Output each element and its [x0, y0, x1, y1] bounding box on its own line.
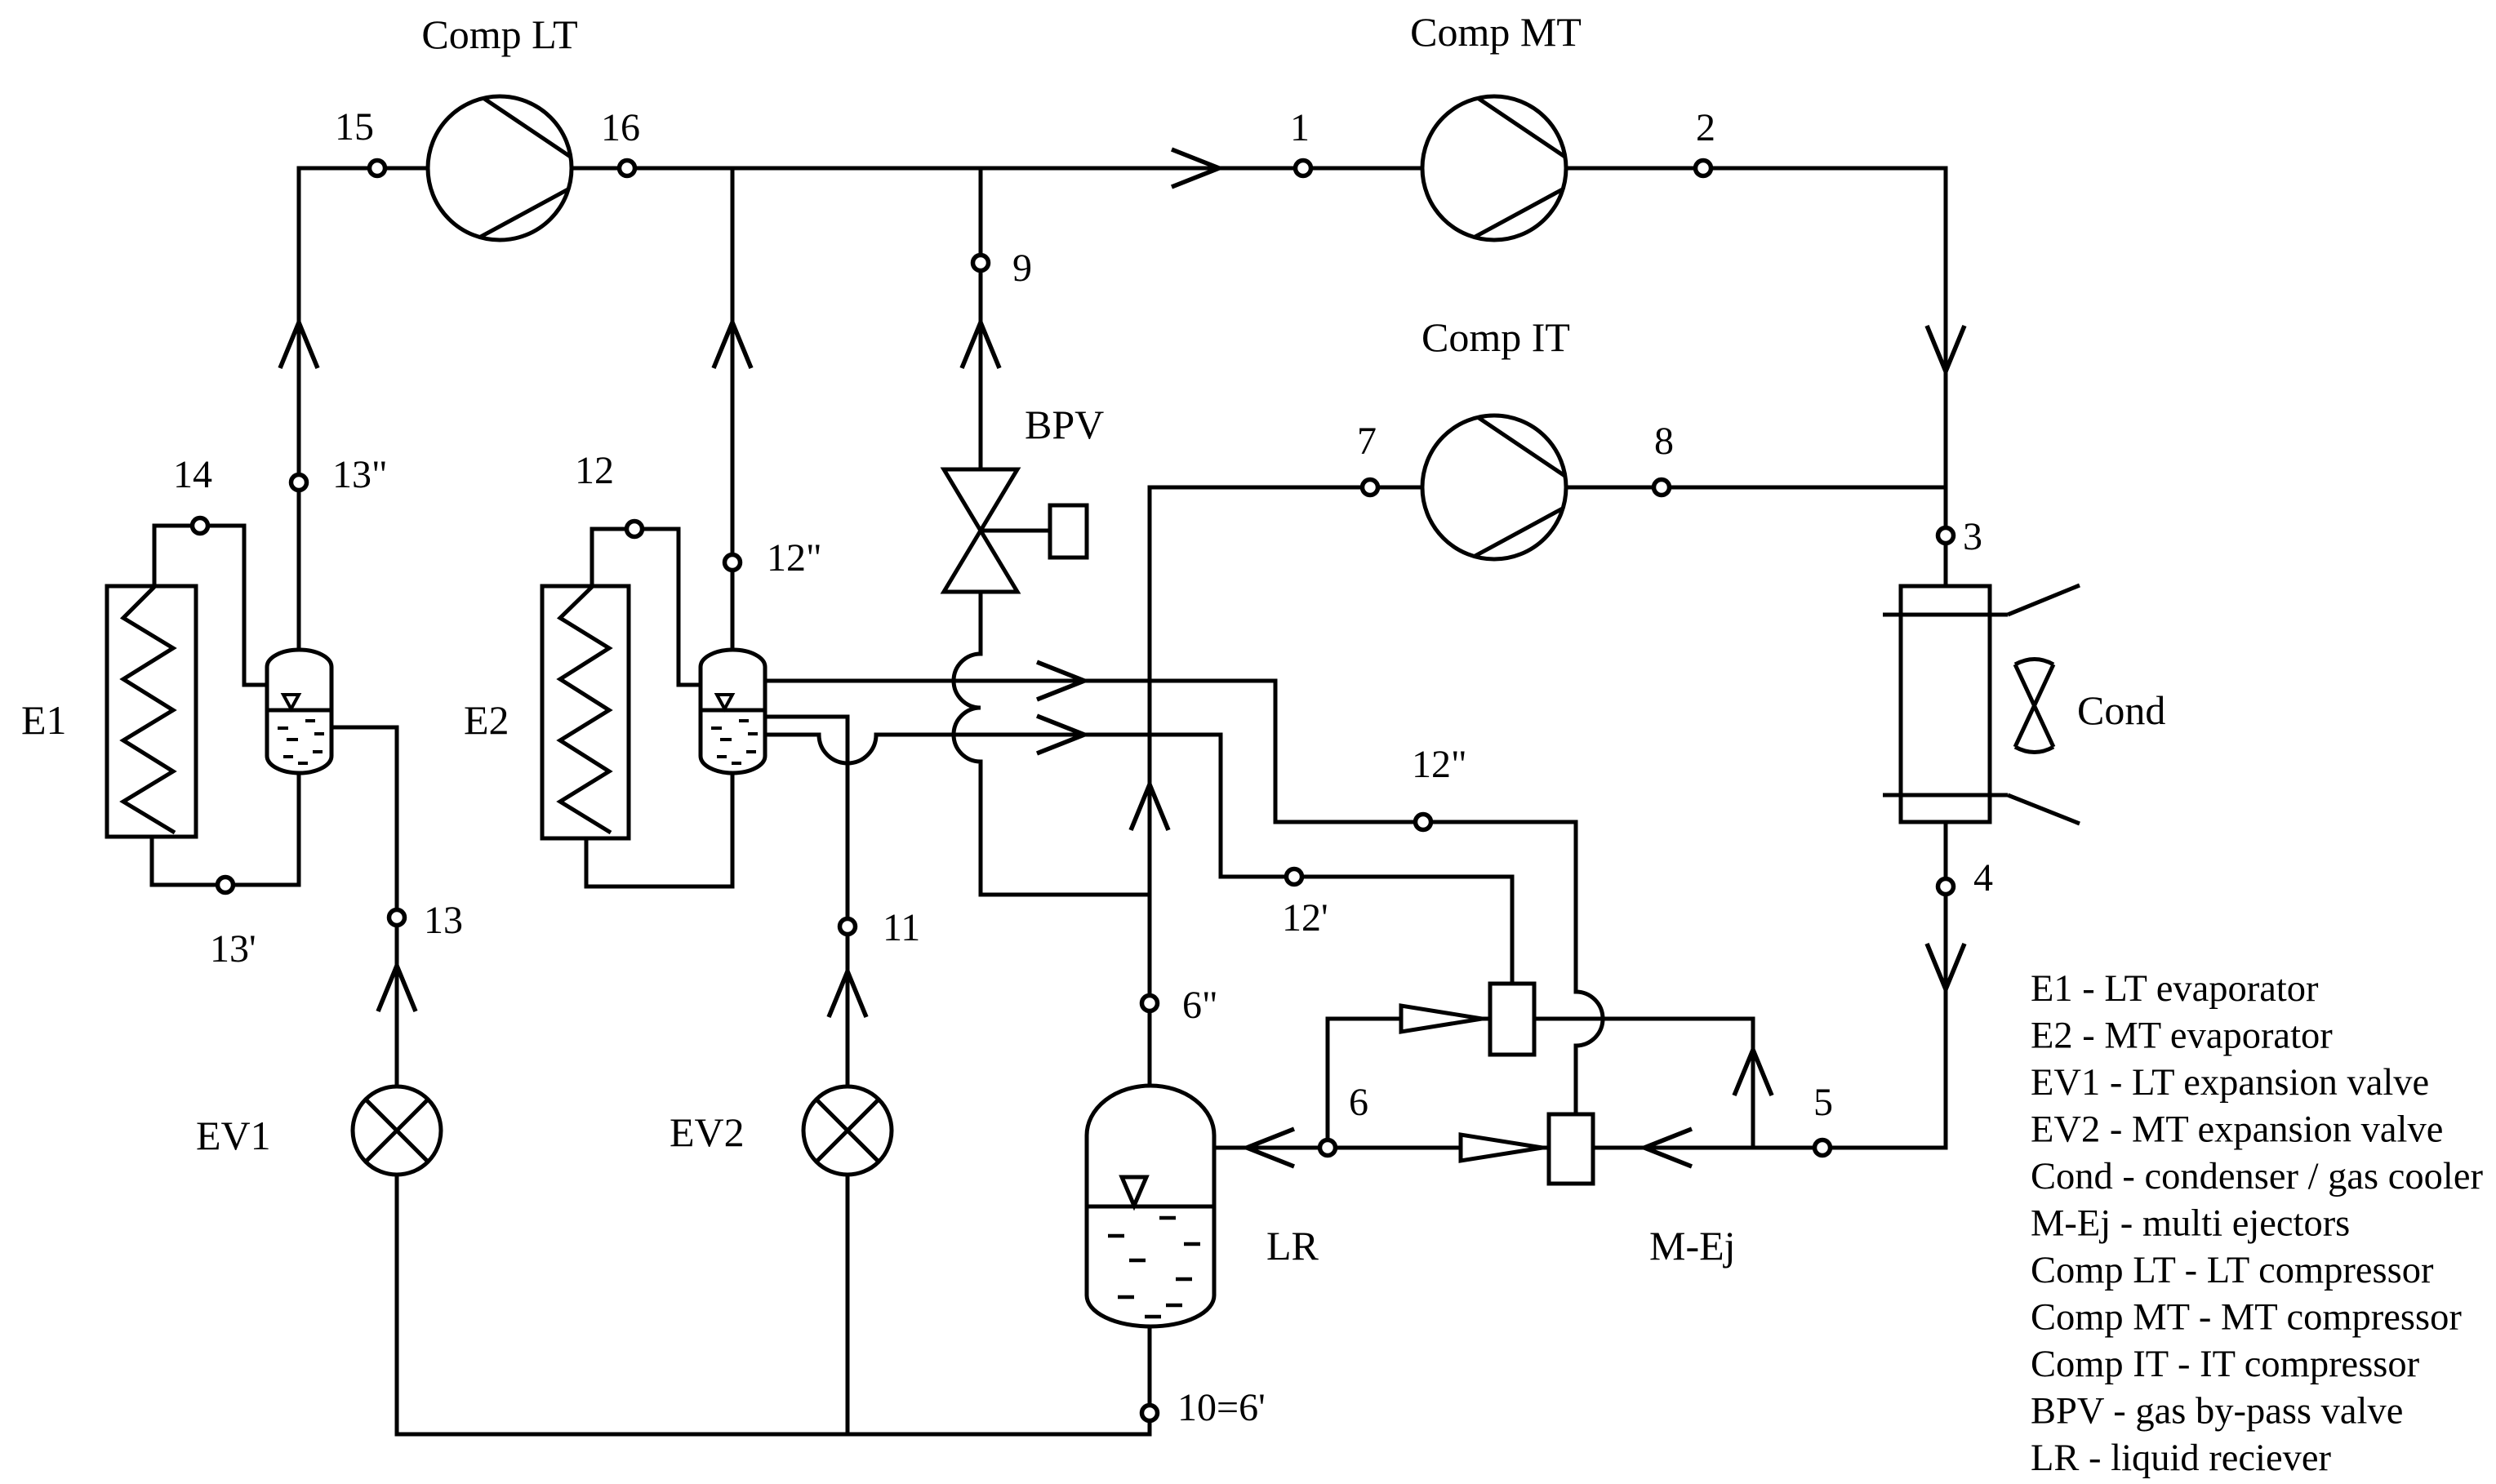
svg-text:2: 2 [1696, 106, 1715, 149]
svg-text:BPV: BPV [1025, 402, 1104, 447]
svg-text:10=6': 10=6' [1177, 1386, 1266, 1429]
svg-text:3: 3 [1963, 515, 1982, 558]
svg-text:7: 7 [1357, 420, 1377, 463]
svg-text:Comp IT: Comp IT [1422, 314, 1570, 360]
svg-text:11: 11 [883, 906, 920, 949]
svg-text:EV2: EV2 [670, 1109, 745, 1155]
svg-text:E2 - MT evaporator: E2 - MT evaporator [2031, 1015, 2333, 1057]
svg-text:1: 1 [1290, 106, 1310, 149]
svg-text:6: 6 [1349, 1081, 1368, 1124]
svg-text:Comp LT: Comp LT [421, 11, 577, 57]
svg-text:E1: E1 [21, 697, 67, 743]
svg-text:14: 14 [173, 453, 212, 496]
svg-text:6": 6" [1182, 984, 1218, 1027]
svg-text:LR - liquid reciever: LR - liquid reciever [2031, 1437, 2331, 1479]
svg-text:16: 16 [601, 106, 640, 149]
svg-text:E2: E2 [464, 697, 509, 743]
svg-text:8: 8 [1654, 420, 1674, 463]
svg-text:4: 4 [1973, 856, 1993, 900]
svg-text:Cond: Cond [2077, 687, 2165, 733]
svg-text:Cond - condenser / gas cooler: Cond - condenser / gas cooler [2031, 1156, 2483, 1197]
svg-text:LR: LR [1266, 1223, 1319, 1269]
svg-text:12": 12" [767, 536, 822, 580]
svg-text:12": 12" [1412, 743, 1467, 786]
svg-text:E1 - LT evaporator: E1 - LT evaporator [2031, 968, 2319, 1010]
svg-text:BPV - gas by-pass valve: BPV - gas by-pass valve [2031, 1391, 2403, 1433]
svg-text:13": 13" [332, 453, 388, 496]
svg-text:EV1: EV1 [196, 1113, 271, 1158]
svg-text:Comp MT: Comp MT [1410, 9, 1582, 55]
svg-text:EV1 - LT expansion valve: EV1 - LT expansion valve [2031, 1062, 2429, 1104]
svg-text:15: 15 [335, 105, 374, 149]
svg-text:12: 12 [575, 449, 614, 492]
svg-text:13': 13' [210, 927, 256, 971]
svg-text:12': 12' [1282, 896, 1328, 940]
svg-text:EV2 - MT expansion valve: EV2 - MT expansion valve [2031, 1109, 2443, 1151]
svg-text:Comp MT - MT compressor: Comp MT - MT compressor [2031, 1297, 2462, 1339]
svg-text:9: 9 [1012, 247, 1032, 290]
svg-text:M-Ej - multi ejectors: M-Ej - multi ejectors [2031, 1203, 2350, 1245]
svg-text:5: 5 [1813, 1081, 1833, 1124]
svg-text:M-Ej: M-Ej [1649, 1223, 1736, 1269]
svg-text:13: 13 [424, 899, 463, 942]
svg-text:Comp IT - IT compressor: Comp IT - IT compressor [2031, 1344, 2420, 1385]
svg-text:Comp LT - LT compressor: Comp LT - LT compressor [2031, 1250, 2434, 1291]
